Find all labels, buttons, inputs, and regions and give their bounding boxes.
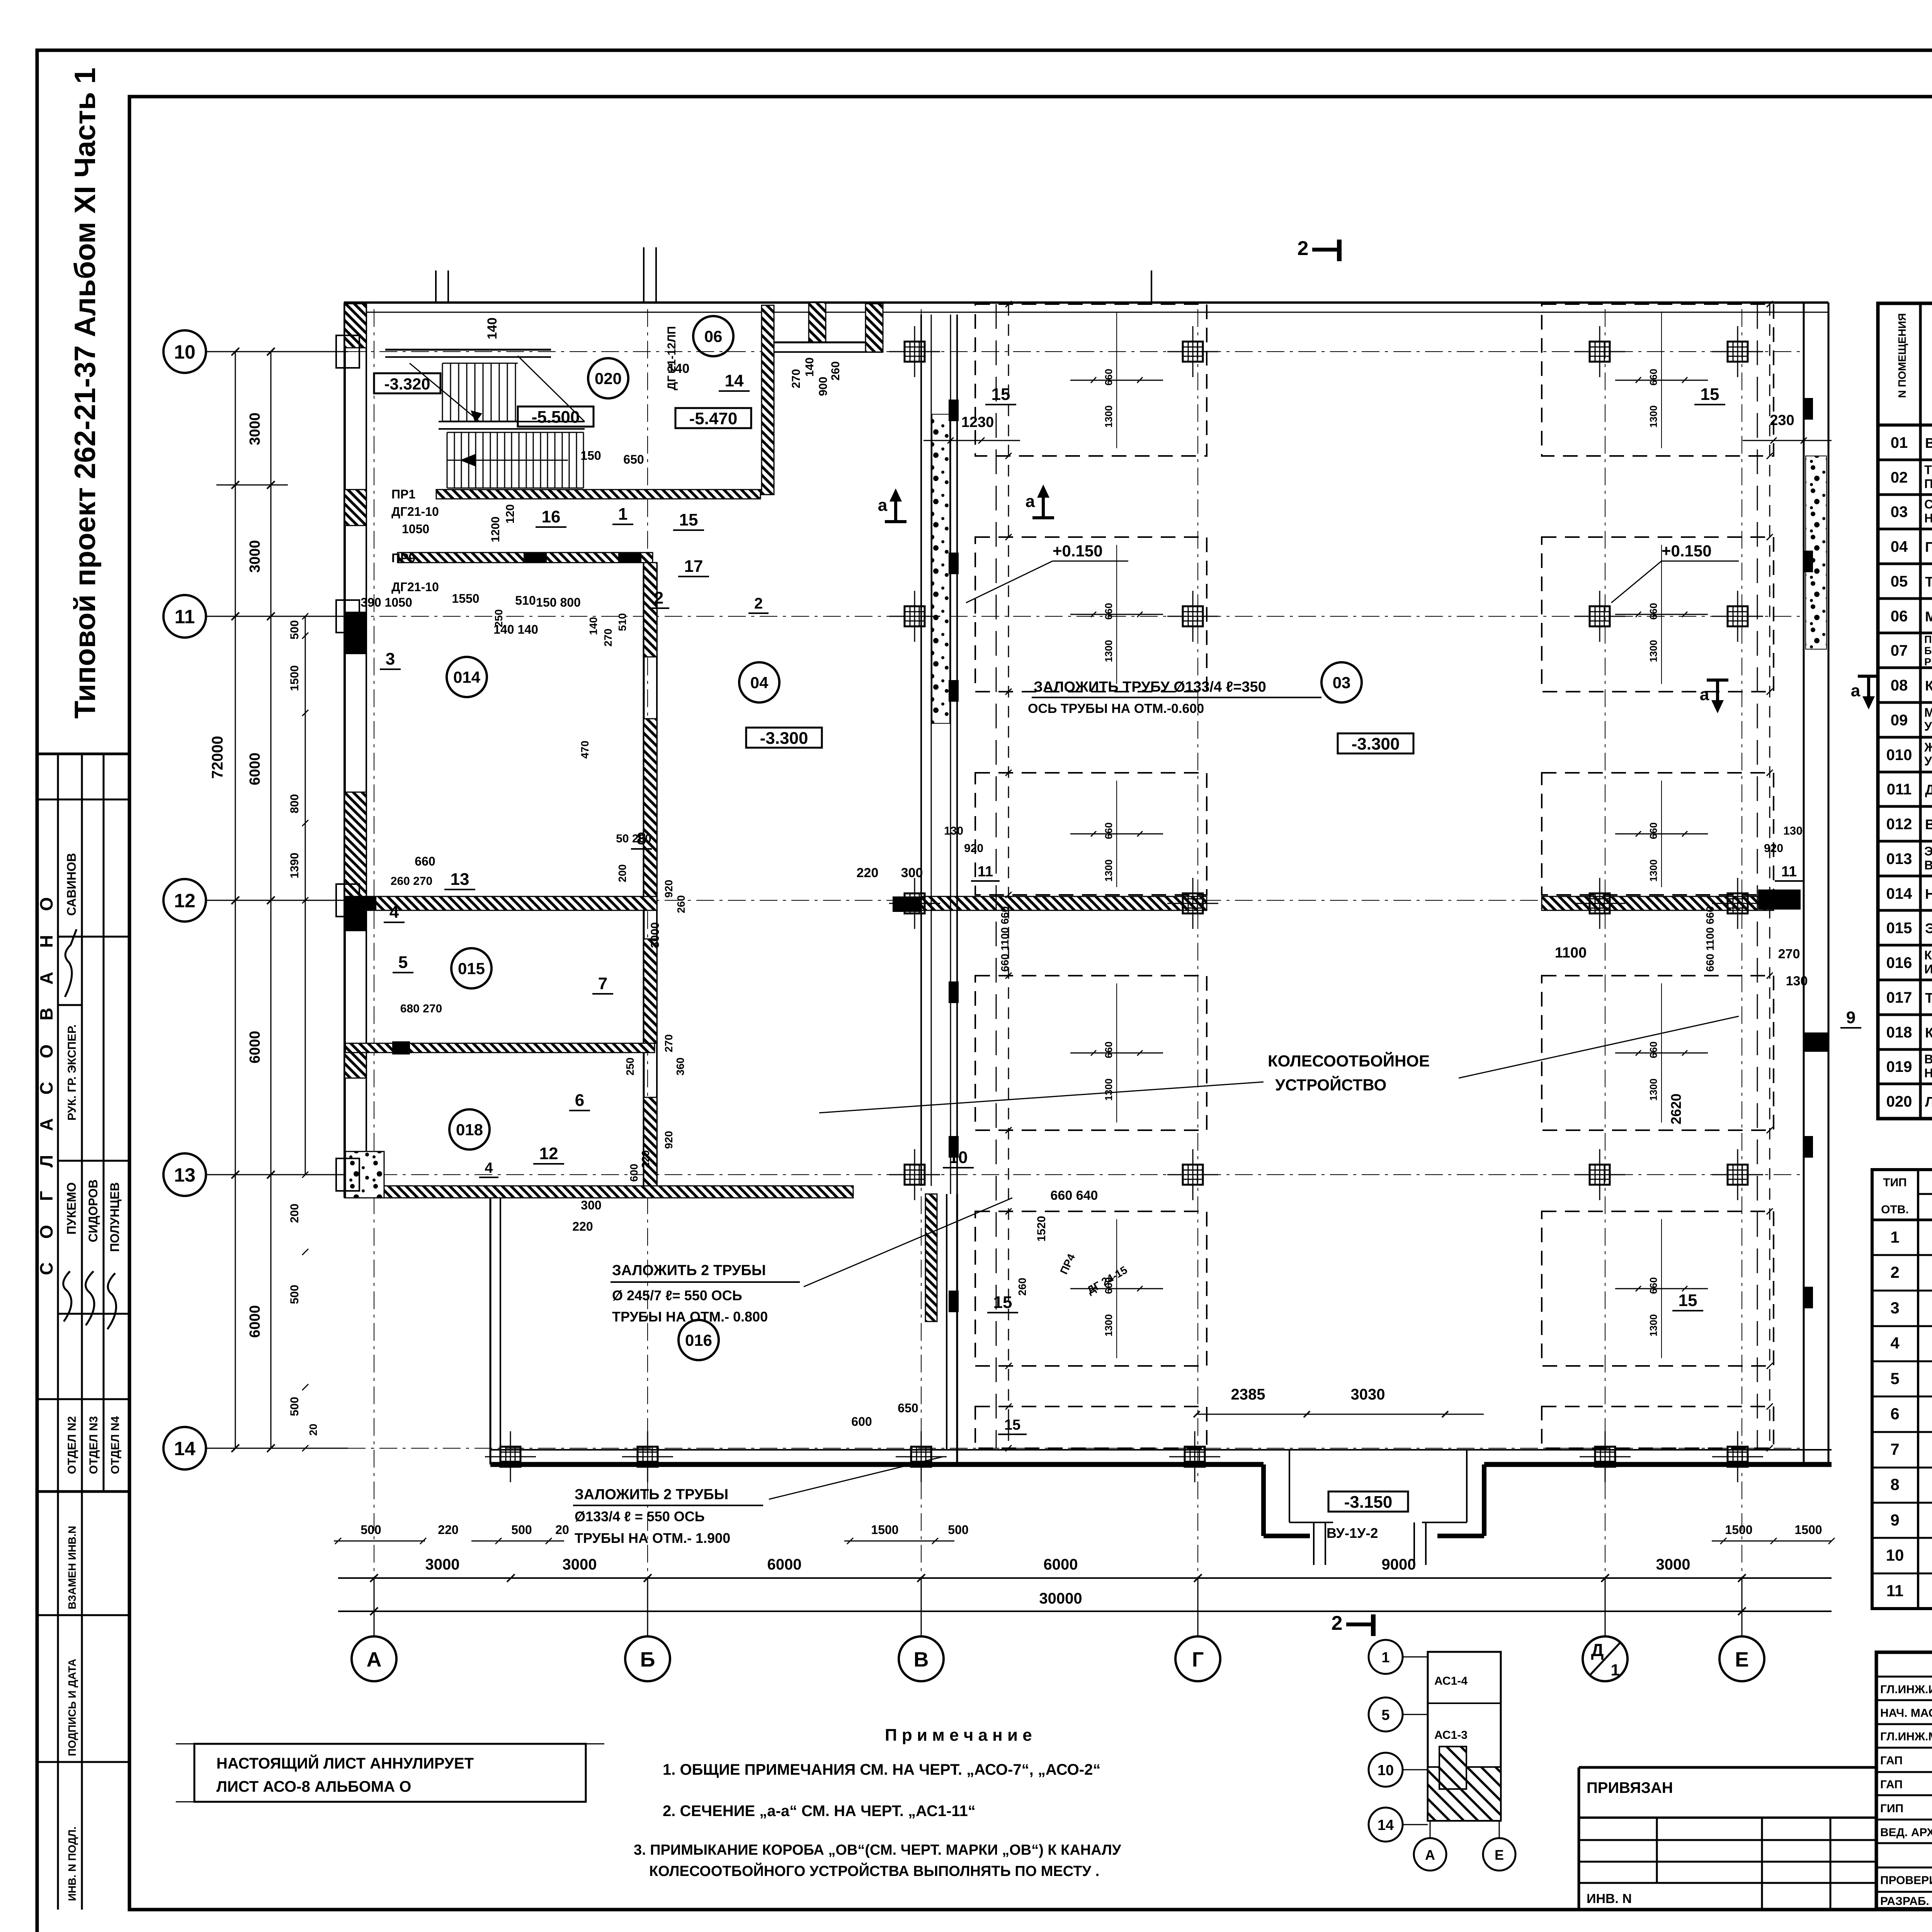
svg-text:010: 010 [1886, 747, 1912, 764]
svg-text:200: 200 [288, 1204, 301, 1223]
svg-text:140: 140 [587, 617, 599, 635]
key plan [1428, 1652, 1501, 1821]
svg-text:а: а [878, 496, 888, 515]
svg-text:Д: Д [1591, 1640, 1604, 1660]
svg-text:6000: 6000 [247, 1305, 263, 1338]
svg-text:260 270: 260 270 [391, 875, 432, 888]
svg-text:680 270: 680 270 [400, 1002, 442, 1015]
svg-text:15: 15 [993, 1293, 1012, 1312]
svg-text:300: 300 [581, 1198, 601, 1212]
svg-text:ПРОВЕРИЛ: ПРОВЕРИЛ [1880, 1874, 1932, 1887]
svg-text:013: 013 [1886, 850, 1912, 867]
stairs upper flight [442, 363, 443, 421]
svg-text:6: 6 [575, 1091, 584, 1110]
svg-text:НА 36 МАШИН: НА 36 МАШИН [1924, 511, 1932, 525]
svg-text:САВИНОВ: САВИНОВ [65, 853, 78, 916]
svg-text:11: 11 [1781, 864, 1797, 880]
svg-text:15: 15 [1701, 385, 1719, 404]
svg-text:14: 14 [725, 371, 744, 390]
svg-text:МУЖСКОЙ САН-: МУЖСКОЙ САН- [1924, 706, 1932, 719]
svg-text:500: 500 [361, 1523, 381, 1537]
svg-text:НАЧ. МАСТ.: НАЧ. МАСТ. [1880, 1707, 1932, 1719]
svg-text:Г: Г [1192, 1648, 1204, 1671]
svg-text:660: 660 [1648, 1277, 1659, 1294]
svg-text:019: 019 [1886, 1058, 1912, 1075]
svg-text:а: а [1700, 685, 1709, 704]
svg-text:510: 510 [616, 613, 628, 631]
svg-text:3000: 3000 [425, 1556, 460, 1573]
svg-text:04: 04 [750, 673, 769, 692]
svg-text:1300: 1300 [1648, 1314, 1659, 1337]
svg-text:КЛАДОВАЯ: КЛАДОВАЯ [1924, 948, 1932, 962]
svg-text:РЫ: РЫ [1924, 656, 1932, 668]
top wall [344, 301, 1828, 304]
svg-text:1300: 1300 [1648, 405, 1659, 428]
svg-text:30000: 30000 [1039, 1590, 1082, 1607]
svg-text:1500: 1500 [871, 1523, 898, 1537]
svg-text:600: 600 [628, 1164, 640, 1182]
svg-text:300: 300 [901, 866, 923, 880]
svg-text:014: 014 [453, 668, 481, 686]
svg-text:660 1100 660: 660 1100 660 [1704, 906, 1716, 972]
svg-text:КОЛЕСООТБОЙНОГО УСТРОЙСТВА: КОЛЕСООТБОЙНОГО УСТРОЙСТВА ВЫПОЛНЯТЬ ПО … [649, 1862, 1099, 1879]
svg-text:ПР1: ПР1 [391, 487, 415, 501]
svg-text:ТЕПЛОВОЙ ПУНКТ: ТЕПЛОВОЙ ПУНКТ [1925, 990, 1932, 1006]
svg-text:1300: 1300 [1648, 640, 1659, 662]
svg-text:130: 130 [944, 825, 963, 837]
axis circles cols A..E [352, 1636, 396, 1681]
svg-text:3000: 3000 [247, 413, 263, 446]
svg-text:НАСТОЯЩИЙ ЛИСТ АННУЛИРУЕТ: НАСТОЯЩИЙ ЛИСТ АННУЛИРУЕТ [216, 1754, 474, 1772]
svg-text:014: 014 [1886, 885, 1912, 902]
svg-text:17: 17 [684, 557, 703, 576]
svg-text:360: 360 [674, 1058, 686, 1076]
svg-text:018: 018 [1886, 1024, 1912, 1041]
svg-text:РАЗРАБ.: РАЗРАБ. [1880, 1895, 1929, 1908]
svg-text:НАСОСНАЯ: НАСОСНАЯ [1925, 886, 1932, 902]
svg-text:1: 1 [618, 505, 628, 524]
svg-text:500: 500 [948, 1523, 968, 1537]
svg-text:500: 500 [288, 1285, 301, 1304]
svg-text:230: 230 [1770, 412, 1794, 429]
svg-text:150: 150 [580, 449, 601, 463]
svg-text:ОСЬ ТРУБЫ НА ОТМ.-0.600: ОСЬ ТРУБЫ НА ОТМ.-0.600 [1028, 701, 1204, 716]
svg-text:ОТВ.: ОТВ. [1881, 1203, 1909, 1216]
svg-text:УСТРОЙСТВО: УСТРОЙСТВО [1275, 1075, 1386, 1094]
svg-text:ЗАЛОЖИТЬ 2 ТРУБЫ: ЗАЛОЖИТЬ 2 ТРУБЫ [575, 1486, 728, 1503]
svg-text:500: 500 [511, 1523, 532, 1537]
stairs mid landing [439, 421, 585, 422]
svg-text:а: а [1026, 492, 1035, 511]
svg-text:650: 650 [898, 1401, 918, 1415]
svg-text:08: 08 [1891, 677, 1908, 694]
svg-text:ИНВ. N ПОДЛ.: ИНВ. N ПОДЛ. [66, 1827, 78, 1901]
svg-text:7: 7 [598, 974, 607, 993]
svg-text:250: 250 [624, 1058, 636, 1076]
svg-text:660: 660 [1103, 822, 1114, 839]
svg-text:КОЛЕСООТБОЙНОЕ: КОЛЕСООТБОЙНОЕ [1268, 1051, 1430, 1070]
grid axis lines (cols) [374, 309, 374, 1634]
svg-text:а: а [1851, 681, 1861, 700]
svg-text:260: 260 [675, 895, 687, 913]
top-right corner of 06 [809, 303, 826, 342]
svg-text:3000: 3000 [563, 1556, 597, 1573]
svg-text:200: 200 [616, 864, 628, 883]
svg-text:ГАП: ГАП [1880, 1754, 1903, 1767]
svg-text:1500: 1500 [1794, 1523, 1822, 1537]
svg-text:1300: 1300 [1103, 640, 1114, 662]
svg-text:017: 017 [1886, 989, 1912, 1006]
svg-text:220: 220 [639, 1150, 651, 1168]
svg-text:ВЗАМЕН ИНВ.N: ВЗАМЕН ИНВ.N [66, 1526, 78, 1609]
privyazan table [1579, 1766, 1876, 1769]
stairs lower flight [447, 432, 448, 488]
svg-text:ОТДЕЛ N3: ОТДЕЛ N3 [87, 1416, 100, 1474]
svg-text:140: 140 [803, 357, 816, 377]
svg-text:-3.300: -3.300 [760, 729, 808, 748]
svg-text:05: 05 [1891, 573, 1908, 590]
svg-text:-3.320: -3.320 [384, 375, 430, 393]
svg-text:1: 1 [1890, 1228, 1899, 1246]
svg-text:920: 920 [964, 842, 983, 855]
svg-text:140 140: 140 140 [493, 622, 538, 636]
svg-text:2: 2 [1332, 1612, 1343, 1634]
svg-text:ЭВАКУАЦИОННЫЕ: ЭВАКУАЦИОННЫЕ [1924, 844, 1932, 858]
top wall stubs [435, 270, 437, 303]
svg-text:660: 660 [1648, 1041, 1659, 1058]
svg-text:270: 270 [602, 629, 614, 647]
svg-text:10: 10 [1886, 1546, 1904, 1564]
svg-text:20: 20 [555, 1523, 569, 1537]
svg-text:ЗАЛОЖИТЬ ТРУБУ Ø133/4 ℓ=350: ЗАЛОЖИТЬ ТРУБУ Ø133/4 ℓ=350 [1034, 679, 1266, 695]
row12 wall [345, 896, 657, 910]
svg-text:ТРУБЫ НА ОТМ.- 0.800: ТРУБЫ НА ОТМ.- 0.800 [612, 1309, 768, 1325]
svg-text:7: 7 [1890, 1440, 1899, 1458]
wall piers on left wall [336, 335, 359, 368]
svg-text:ТЕХНИЧЕСКОЕ: ТЕХНИЧЕСКОЕ [1924, 463, 1932, 477]
svg-text:920: 920 [663, 1131, 675, 1149]
room number circles [693, 316, 733, 356]
svg-text:10: 10 [1378, 1762, 1394, 1779]
svg-text:2: 2 [1890, 1263, 1899, 1281]
svg-text:ГАП: ГАП [1880, 1778, 1903, 1791]
svg-text:6000: 6000 [767, 1556, 802, 1573]
axis circle D/1 [1583, 1636, 1628, 1681]
svg-text:3000: 3000 [649, 922, 662, 948]
svg-text:140: 140 [668, 361, 690, 376]
svg-text:1300: 1300 [1103, 405, 1114, 428]
svg-text:10: 10 [174, 341, 196, 363]
svg-text:6000: 6000 [247, 1031, 263, 1064]
svg-text:016: 016 [685, 1331, 712, 1349]
svg-text:2: 2 [754, 595, 763, 612]
svg-text:15: 15 [1679, 1291, 1697, 1310]
svg-text:13: 13 [451, 870, 469, 889]
svg-text:БОТКИ МАКУЛАТУ-: БОТКИ МАКУЛАТУ- [1924, 645, 1932, 656]
svg-text:1500: 1500 [1725, 1523, 1752, 1537]
svg-text:КЛАДОВАЯ: КЛАДОВАЯ [1925, 1025, 1932, 1041]
svg-text:ВЕНТКАМЕРА N4: ВЕНТКАМЕРА N4 [1925, 435, 1932, 451]
svg-text:1300: 1300 [1648, 1078, 1659, 1101]
svg-text:06: 06 [704, 327, 723, 345]
svg-text:АС1-3: АС1-3 [1434, 1729, 1468, 1742]
svg-text:660 1100 660: 660 1100 660 [999, 906, 1011, 972]
svg-text:1390: 1390 [288, 853, 301, 879]
svg-text:3. ПРИМЫКАНИЕ КОРОБА „ОВ“(СМ.: 3. ПРИМЫКАНИЕ КОРОБА „ОВ“(СМ. ЧЕРТ. МАРК… [634, 1842, 1121, 1858]
svg-text:ПОДПИСЬ И ДАТА: ПОДПИСЬ И ДАТА [66, 1659, 78, 1756]
svg-text:ГИП: ГИП [1880, 1802, 1903, 1815]
svg-text:РУК. ГР. ЭКСПЕР.: РУК. ГР. ЭКСПЕР. [66, 1024, 78, 1121]
svg-text:ДИСПЕТЧЕРСКАЯ: ДИСПЕТЧЕРСКАЯ [1925, 782, 1932, 798]
svg-text:ИНВЕНТАРЯ: ИНВЕНТАРЯ [1924, 962, 1932, 976]
svg-text:06: 06 [1891, 608, 1908, 625]
svg-text:6: 6 [1890, 1405, 1899, 1423]
secondary left chain [305, 616, 306, 900]
svg-text:800: 800 [288, 794, 301, 813]
svg-text:9000: 9000 [1382, 1556, 1416, 1573]
svg-text:-5.500: -5.500 [532, 408, 580, 427]
svg-text:15: 15 [992, 385, 1010, 404]
svg-text:220: 220 [438, 1523, 458, 1537]
svg-text:500: 500 [288, 1397, 301, 1416]
svg-text:1. ОБЩИЕ ПРИМЕЧАНИЯ СМ. НА: 1. ОБЩИЕ ПРИМЕЧАНИЯ СМ. НА ЧЕРТ. „АСО-7“… [663, 1761, 1100, 1778]
svg-text:КЛАДОВАЯ: КЛАДОВАЯ [1925, 678, 1932, 694]
svg-text:ТАМБУР: ТАМБУР [1925, 574, 1932, 590]
column symbols [905, 342, 925, 362]
svg-text:20: 20 [307, 1423, 319, 1435]
approvals block (rotated table) [37, 754, 129, 1492]
svg-text:АС1-4: АС1-4 [1434, 1675, 1468, 1687]
svg-text:016: 016 [1886, 954, 1912, 971]
svg-text:НЫЙ КАНАЛ: НЫЙ КАНАЛ [1924, 1066, 1932, 1080]
svg-text:ЖЕНСКИЙ САН-: ЖЕНСКИЙ САН- [1924, 740, 1932, 754]
svg-text:ПРИВЯЗАН: ПРИВЯЗАН [1587, 1779, 1673, 1796]
title block [1876, 1652, 1932, 1909]
svg-text:ВОЗДУХОЗАБОР-: ВОЗДУХОЗАБОР- [1924, 1052, 1932, 1066]
svg-text:14: 14 [1378, 1817, 1394, 1833]
svg-text:3000: 3000 [247, 540, 263, 573]
svg-text:УЗЕЛ: УЗЕЛ [1924, 719, 1932, 733]
svg-text:1300: 1300 [1103, 859, 1114, 882]
svg-text:ОТДЕЛ N2: ОТДЕЛ N2 [66, 1416, 78, 1474]
svg-text:Е: Е [1735, 1648, 1749, 1671]
svg-text:4: 4 [389, 903, 399, 922]
svg-text:04: 04 [1891, 538, 1908, 555]
stairwell walls (room 020) [436, 490, 760, 499]
svg-text:Ø 245/7 ℓ= 550 ОСЬ: Ø 245/7 ℓ= 550 ОСЬ [612, 1287, 742, 1303]
svg-text:650: 650 [623, 452, 644, 466]
svg-text:2. СЕЧЕНИЕ „а-а“ СМ. НА Ч: 2. СЕЧЕНИЕ „а-а“ СМ. НА ЧЕРТ. „АС1-11“ [663, 1803, 976, 1820]
wall x1680 (04 left) [643, 563, 645, 1186]
room 016 right wall [925, 1194, 937, 1321]
main bottom chain [338, 1577, 1832, 1579]
svg-text:ОТДЕЛ N4: ОТДЕЛ N4 [109, 1416, 122, 1474]
level boxes [374, 373, 440, 393]
svg-text:УЗЕЛ: УЗЕЛ [1924, 754, 1932, 768]
svg-text:ДГ 21-12ЛП: ДГ 21-12ЛП [665, 326, 678, 390]
svg-text:260: 260 [1016, 1278, 1028, 1296]
svg-text:ТРУБЫ НА ОТМ.- 1.900: ТРУБЫ НА ОТМ.- 1.900 [575, 1530, 730, 1546]
svg-text:9: 9 [1846, 1008, 1855, 1027]
svg-text:11: 11 [1886, 1582, 1903, 1600]
svg-text:920: 920 [1764, 842, 1783, 855]
svg-text:510: 510 [515, 594, 536, 607]
svg-text:1: 1 [1381, 1650, 1389, 1666]
svg-text:3000: 3000 [1656, 1556, 1690, 1573]
svg-text:ТИП: ТИП [1883, 1176, 1906, 1189]
svg-text:1550: 1550 [452, 592, 479, 605]
svg-text:1230: 1230 [961, 414, 994, 430]
left dimension chain [235, 352, 236, 1448]
svg-text:ЗАЛОЖИТЬ 2 ТРУБЫ: ЗАЛОЖИТЬ 2 ТРУБЫ [612, 1262, 766, 1279]
svg-text:-3.150: -3.150 [1344, 1493, 1393, 1512]
svg-text:1500: 1500 [288, 665, 301, 691]
svg-text:ДГ21-10: ДГ21-10 [391, 505, 439, 519]
svg-text:03: 03 [1891, 503, 1908, 520]
svg-text:015: 015 [458, 959, 485, 978]
bottom dimension chains [334, 1541, 425, 1542]
svg-text:8: 8 [1890, 1475, 1899, 1493]
svg-text:В: В [914, 1648, 929, 1671]
svg-text:09: 09 [1891, 712, 1908, 729]
svg-text:130: 130 [1783, 825, 1803, 837]
svg-text:5: 5 [1381, 1707, 1389, 1723]
entry vestibule [1261, 1464, 1266, 1536]
svg-text:ЭЛЕКТРОЩИТОВАЯ: ЭЛЕКТРОЩИТОВАЯ [1925, 920, 1932, 936]
svg-text:ВЕНТКАМЕРА N5: ВЕНТКАМЕРА N5 [1925, 816, 1932, 832]
left wall [344, 303, 346, 1198]
svg-text:50 200: 50 200 [616, 832, 651, 845]
svg-text:СТОЯНКА: СТОЯНКА [1924, 497, 1932, 511]
svg-text:1300: 1300 [1648, 859, 1659, 882]
svg-text:020: 020 [595, 369, 622, 388]
svg-text:П р и м е ч а н и е: П р и м е ч а н и е [885, 1726, 1032, 1745]
svg-text:1300: 1300 [1103, 1078, 1114, 1101]
svg-text:270: 270 [663, 1034, 675, 1053]
svg-text:4: 4 [485, 1160, 493, 1176]
svg-text:2385: 2385 [1231, 1386, 1265, 1403]
wall 015/018 [345, 1043, 655, 1053]
svg-text:220: 220 [572, 1219, 593, 1233]
svg-text:660: 660 [1648, 603, 1659, 619]
svg-text:ЛИСТ АСО-8 АЛЬБОМА О: ЛИСТ АСО-8 АЛЬБОМА О [216, 1778, 411, 1795]
svg-text:12: 12 [174, 890, 196, 912]
svg-text:11: 11 [175, 606, 195, 628]
svg-text:Типовой проект 262-21-37 Ал: Типовой проект 262-21-37 Альбом XI Часть… [69, 68, 102, 719]
svg-text:900: 900 [817, 377, 830, 396]
svg-text:220: 220 [857, 866, 879, 880]
main table grid [1878, 303, 1932, 1119]
svg-text:3: 3 [386, 650, 395, 668]
svg-text:1200: 1200 [489, 517, 502, 543]
svg-text:ГЛ.ИНЖ.ИН.: ГЛ.ИНЖ.ИН. [1880, 1683, 1932, 1696]
svg-text:920: 920 [663, 880, 675, 898]
svg-text:270: 270 [790, 369, 803, 388]
svg-text:+0.150: +0.150 [1662, 542, 1712, 560]
svg-text:-5.470: -5.470 [689, 409, 738, 428]
svg-text:Ø133/4 ℓ = 550 ОСЬ: Ø133/4 ℓ = 550 ОСЬ [575, 1509, 705, 1524]
svg-text:1100: 1100 [1555, 945, 1587, 961]
svg-text:ПОЛУНЦЕВ: ПОЛУНЦЕВ [108, 1182, 122, 1252]
svg-text:660: 660 [1103, 369, 1114, 385]
svg-text:3: 3 [1890, 1299, 1899, 1317]
svg-text:130: 130 [1786, 974, 1808, 988]
svg-text:ВЫХОДЫ: ВЫХОДЫ [1924, 858, 1932, 872]
lower-left step wall [490, 1198, 492, 1464]
svg-text:012: 012 [1886, 816, 1912, 833]
svg-text:660: 660 [1648, 369, 1659, 385]
svg-text:660 640: 660 640 [1051, 1188, 1098, 1203]
svg-text:660: 660 [415, 854, 435, 868]
svg-text:1050: 1050 [402, 522, 429, 536]
svg-text:ЛЕСТНИЦА N3: ЛЕСТНИЦА N3 [1925, 1094, 1932, 1110]
svg-text:12: 12 [539, 1144, 558, 1163]
svg-text:Е: Е [1495, 1847, 1504, 1863]
svg-text:10: 10 [949, 1148, 968, 1167]
svg-text:14: 14 [174, 1438, 196, 1459]
svg-text:СИДОРОВ: СИДОРОВ [86, 1179, 100, 1242]
svg-text:МАШЗАЛ: МАШЗАЛ [1925, 609, 1932, 624]
svg-text:660: 660 [1103, 1041, 1114, 1058]
svg-text:9: 9 [1890, 1511, 1899, 1529]
svg-text:ПОМЕЩЕНИЕ ОБРА-: ПОМЕЩЕНИЕ ОБРА- [1924, 634, 1932, 645]
svg-text:660: 660 [1103, 603, 1114, 619]
annulment note box [194, 1744, 586, 1802]
svg-text:6000: 6000 [247, 753, 263, 786]
svg-text:390 1050: 390 1050 [361, 595, 412, 609]
svg-text:6000: 6000 [1044, 1556, 1078, 1573]
svg-text:А: А [1425, 1847, 1435, 1863]
svg-text:СОГЛАСОВАНО: СОГЛАСОВАНО [36, 873, 56, 1275]
stair break line [518, 356, 585, 422]
svg-text:ГЛ.ИНЖ.М.: ГЛ.ИНЖ.М. [1880, 1730, 1932, 1743]
svg-text:150 800: 150 800 [536, 595, 581, 609]
svg-text:-3.300: -3.300 [1352, 735, 1400, 753]
svg-text:А: А [367, 1648, 382, 1671]
room 06 wall (vert) [762, 305, 774, 495]
svg-text:15: 15 [1004, 1417, 1020, 1433]
svg-text:72000: 72000 [209, 736, 226, 779]
svg-text:260: 260 [829, 361, 842, 381]
wall PR9 [398, 553, 653, 563]
svg-text:500: 500 [288, 620, 301, 639]
svg-text:2: 2 [1298, 237, 1309, 260]
svg-text:ПР9: ПР9 [391, 551, 415, 565]
svg-text:120: 120 [504, 504, 517, 524]
svg-text:+0.150: +0.150 [1053, 542, 1103, 560]
svg-text:1520: 1520 [1035, 1216, 1048, 1242]
svg-text:2: 2 [654, 588, 663, 607]
signature scribbles [65, 929, 77, 997]
svg-text:600: 600 [851, 1415, 872, 1429]
svg-text:1300: 1300 [1103, 1314, 1114, 1337]
svg-text:470: 470 [579, 741, 591, 759]
svg-text:ПОДПОЛЬЕ: ПОДПОЛЬЕ [1924, 477, 1932, 491]
svg-text:2620: 2620 [1668, 1094, 1684, 1124]
svg-text:02: 02 [1891, 469, 1908, 486]
svg-text:N ПОМЕЩЕНИЯ: N ПОМЕЩЕНИЯ [1896, 313, 1908, 398]
svg-text:15: 15 [679, 510, 698, 529]
svg-text:4: 4 [1890, 1334, 1900, 1352]
svg-text:018: 018 [456, 1121, 483, 1139]
openings table [1872, 1170, 1932, 1609]
svg-text:03: 03 [1333, 673, 1351, 692]
axis circles rows 10-14 [163, 330, 206, 373]
svg-text:ВЕД. АРХ.: ВЕД. АРХ. [1880, 1826, 1932, 1839]
svg-text:ПУКЕМО: ПУКЕМО [65, 1182, 78, 1235]
svg-text:1: 1 [1611, 1661, 1619, 1679]
svg-text:ИНВ. N: ИНВ. N [1587, 1891, 1632, 1906]
